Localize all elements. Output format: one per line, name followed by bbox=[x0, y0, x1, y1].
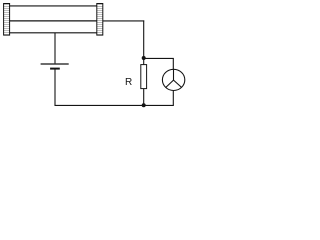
wire: resistor bottom to node B bbox=[143, 89, 145, 106]
wire: node A to lamp horizontal bbox=[144, 57, 174, 59]
wire: bottom horizontal bbox=[55, 104, 174, 106]
node A junction dot bbox=[142, 56, 146, 60]
wire: lamp top drop bbox=[172, 58, 174, 69]
tube envelope top edge bbox=[9, 5, 97, 7]
battery long plate bbox=[41, 63, 69, 65]
lamp stem (vertical into center) bbox=[173, 69, 175, 80]
lamp circle bbox=[162, 69, 184, 90]
svg-text:R: R bbox=[125, 77, 132, 88]
lamp right leg bbox=[174, 80, 182, 87]
wire: tube bottom to battery bbox=[54, 33, 56, 64]
wire: battery down to bottom left corner bbox=[54, 69, 56, 106]
wire: right vertical down to node A bbox=[143, 20, 145, 58]
tube envelope bottom edge bbox=[9, 32, 97, 34]
wire: lamp bottom riser bbox=[172, 91, 174, 106]
right electrode bar (hatched) bbox=[97, 4, 103, 36]
node B junction dot bbox=[142, 103, 146, 107]
wire: tube right output horizontal bbox=[103, 20, 144, 22]
wire: node A down to resistor bbox=[143, 58, 145, 65]
tube middle conductor line bbox=[9, 20, 97, 22]
battery short plate bbox=[50, 68, 60, 70]
lamp left leg bbox=[166, 80, 174, 87]
left electrode bar (hatched) bbox=[4, 4, 10, 36]
resistor R body bbox=[141, 65, 147, 89]
